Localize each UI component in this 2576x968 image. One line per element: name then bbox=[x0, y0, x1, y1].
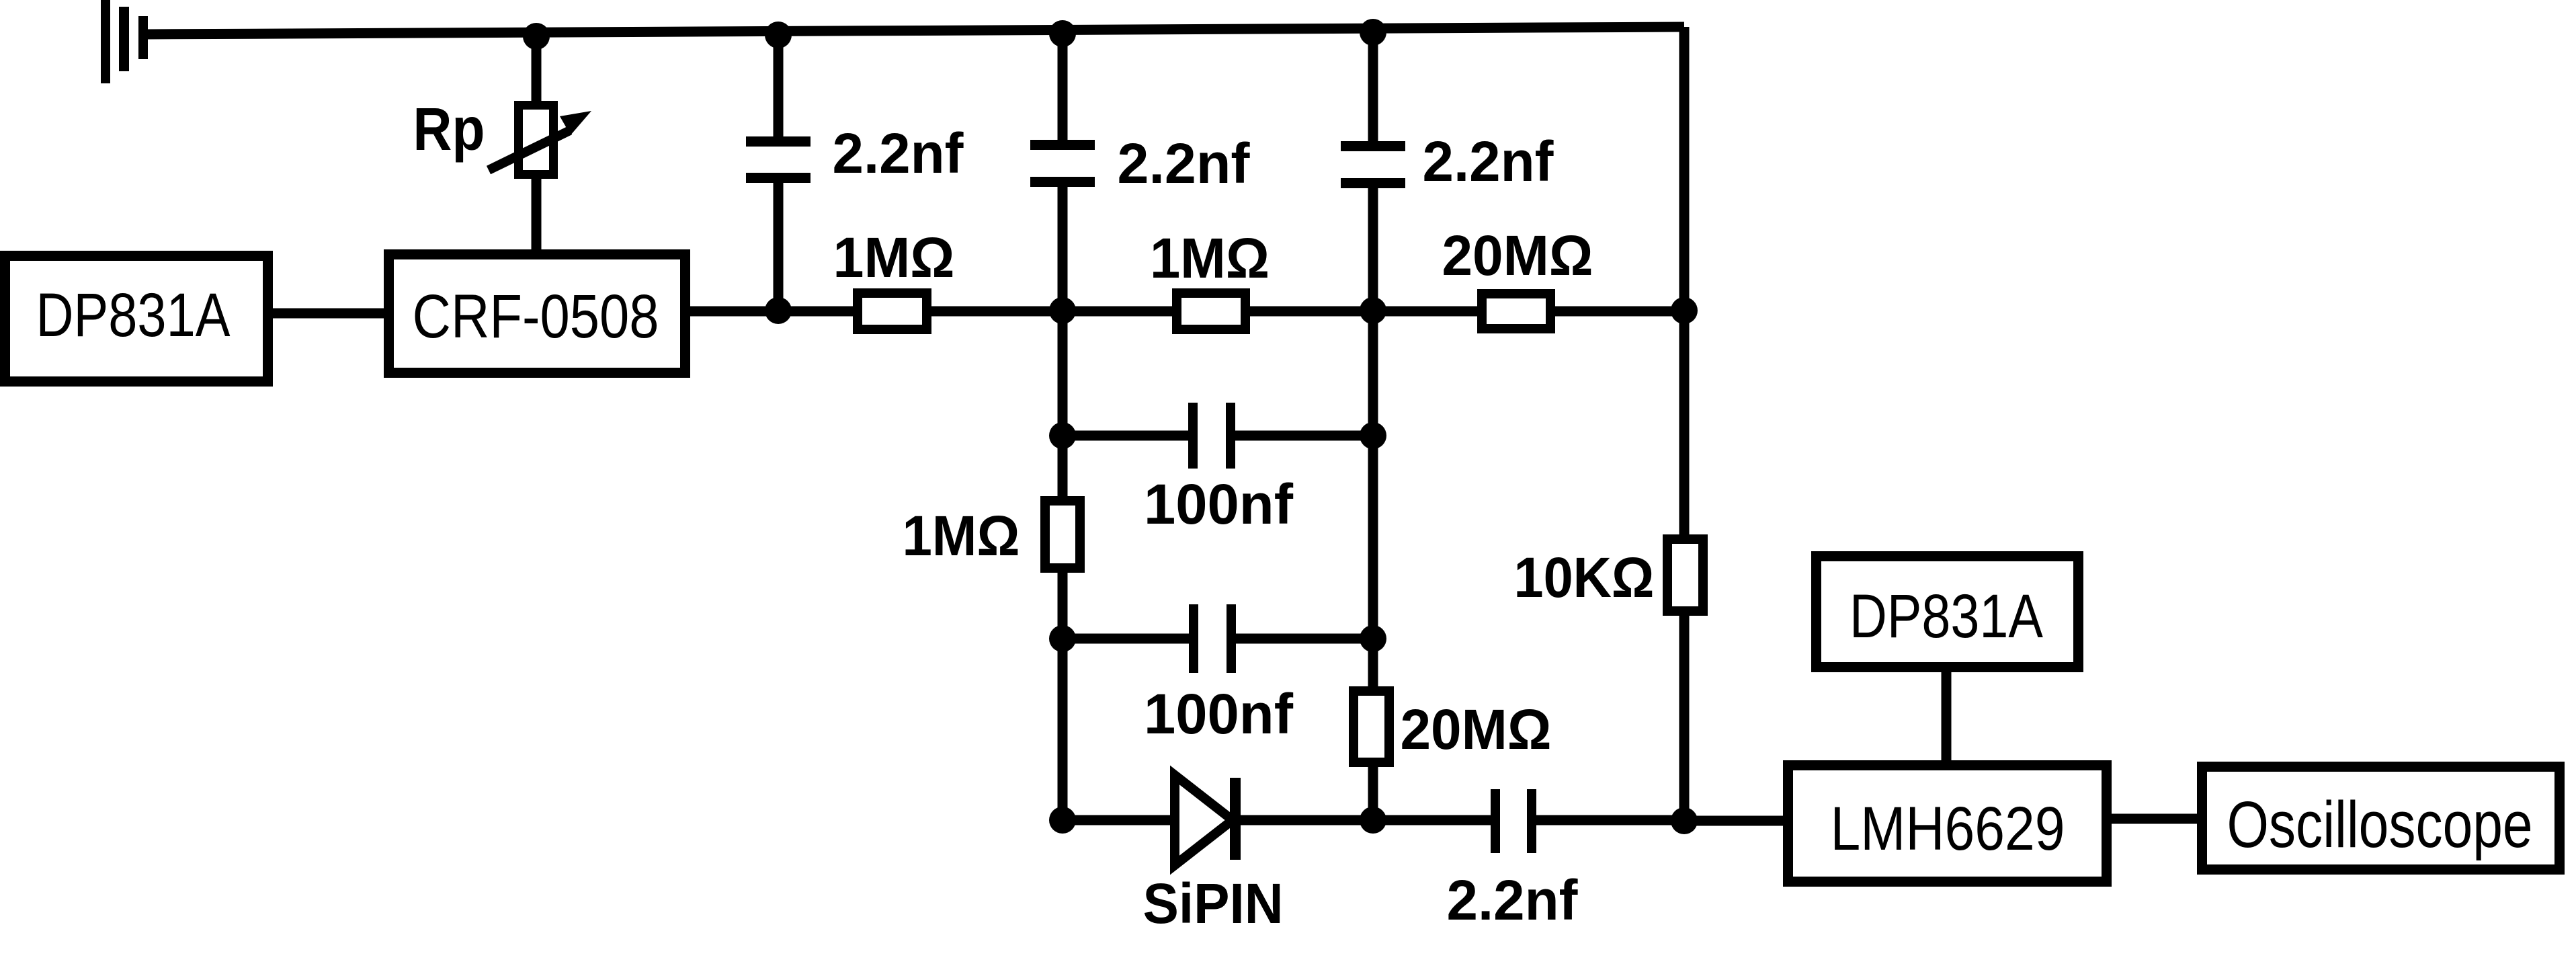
node bias row right rail bbox=[1671, 297, 1698, 324]
node bias row column B bbox=[1049, 297, 1076, 324]
node B1 (100nf row 1 left) bbox=[1049, 422, 1076, 449]
node bias row column C bbox=[1360, 297, 1386, 324]
capacitor C2 top plate bbox=[1030, 140, 1095, 150]
wire node B1 to C4 left plate bbox=[1063, 431, 1190, 441]
wire Rp to CRF-0508 bbox=[532, 177, 542, 254]
resistor R6 10K body bbox=[1667, 539, 1703, 611]
svg-text:100nf: 100nf bbox=[1144, 682, 1294, 745]
block DP831A power supply (left) bbox=[5, 256, 268, 382]
wire C6 right plate to output node bbox=[1534, 815, 1684, 825]
wire top rail to C1 top plate bbox=[774, 30, 784, 138]
capacitor C6 right plate bbox=[1527, 789, 1536, 853]
capacitor C1 bottom plate bbox=[746, 173, 811, 183]
svg-text:Rp: Rp bbox=[413, 96, 485, 163]
wire C1 bottom plate to bias node A bbox=[774, 180, 784, 313]
wire top rail bbox=[143, 27, 1684, 34]
node C1 (100nf row 1 right) bbox=[1360, 422, 1386, 449]
node top-Rp junction bbox=[523, 23, 550, 50]
capacitor C3 bottom plate bbox=[1341, 178, 1405, 188]
node A (C1/R1 bias row) bbox=[765, 297, 792, 324]
capacitor C2 bottom plate bbox=[1030, 177, 1095, 187]
wire column C (C3 bottom plate through nodes to diode cathode row) bbox=[1368, 187, 1378, 821]
wire DP831A supply to LMH6629 bbox=[1942, 671, 1952, 762]
svg-text:2.2nf: 2.2nf bbox=[1423, 130, 1554, 193]
wire node C3 to C6 left plate bbox=[1373, 815, 1493, 825]
svg-text:100nf: 100nf bbox=[1144, 473, 1294, 536]
resistor R4 1M vertical body bbox=[1045, 501, 1080, 568]
svg-text:2.2nf: 2.2nf bbox=[1447, 869, 1579, 932]
node top-C2 junction bbox=[1049, 20, 1076, 47]
wire SiPIN cathode to node C3 bbox=[1235, 815, 1373, 825]
wire top rail to C2 top plate bbox=[1058, 28, 1068, 141]
wire SiPIN anode bbox=[1063, 815, 1177, 825]
resistor R5 20M vertical body bbox=[1354, 691, 1389, 762]
capacitor C1 top plate bbox=[746, 136, 811, 147]
svg-text:LMH6629: LMH6629 bbox=[1831, 795, 2065, 863]
capacitor C4 right plate bbox=[1226, 403, 1235, 469]
wire LMH6629 to Oscilloscope bbox=[2110, 814, 2198, 824]
capacitor C3 top plate bbox=[1341, 141, 1405, 151]
svg-text:SiPIN: SiPIN bbox=[1143, 872, 1284, 935]
wire right vertical (top rail to output node) bbox=[1679, 27, 1690, 821]
svg-text:2.2nf: 2.2nf bbox=[1118, 132, 1251, 195]
svg-text:Oscilloscope: Oscilloscope bbox=[2227, 788, 2533, 861]
wire output node to LMH6629 bbox=[1684, 816, 1784, 826]
block CRF-0508 filter bbox=[389, 255, 685, 373]
node C2 (100nf row 2 right) bbox=[1360, 625, 1386, 652]
svg-text:20MΩ: 20MΩ bbox=[1442, 224, 1593, 287]
block LMH6629 amplifier bbox=[1788, 766, 2107, 882]
capacitor C5 left plate bbox=[1189, 604, 1198, 673]
svg-text:1MΩ: 1MΩ bbox=[833, 226, 955, 289]
node output junction bbox=[1671, 807, 1698, 834]
wire top rail to C3 top plate bbox=[1368, 27, 1378, 143]
capacitor C5 right plate bbox=[1227, 604, 1236, 673]
resistor R1 1M body bbox=[858, 293, 927, 329]
wire DP831A to CRF-0508 bbox=[272, 309, 385, 319]
svg-text:2.2nf: 2.2nf bbox=[833, 122, 964, 185]
node C3 (diode cathode junction) bbox=[1360, 807, 1386, 834]
capacitor C4 left plate bbox=[1188, 403, 1198, 469]
ground symbol bbox=[101, 0, 148, 83]
svg-text:10KΩ: 10KΩ bbox=[1514, 546, 1655, 609]
node B2 (100nf row 2 left) bbox=[1049, 625, 1076, 652]
node top-C1 junction bbox=[765, 22, 792, 48]
diode SiPIN triangle bbox=[1175, 775, 1233, 865]
resistor Rp arrow bbox=[489, 111, 591, 170]
svg-text:DP831A: DP831A bbox=[36, 281, 231, 350]
capacitor C6 left plate bbox=[1491, 789, 1500, 853]
resistor R3 20M body bbox=[1482, 294, 1550, 329]
diode SiPIN cathode bar bbox=[1230, 778, 1241, 860]
svg-text:CRF-0508: CRF-0508 bbox=[413, 282, 659, 351]
wire column B (C2 bottom plate through nodes to SiPIN anode) bbox=[1058, 186, 1068, 821]
node SiPIN anode junction bbox=[1049, 807, 1076, 834]
node top-C3 junction bbox=[1360, 19, 1386, 46]
resistor R2 1M body bbox=[1177, 293, 1245, 329]
wire node B2 to C5 left plate bbox=[1063, 634, 1190, 644]
svg-text:20MΩ: 20MΩ bbox=[1401, 698, 1552, 761]
wire C4 right plate to node C1 bbox=[1234, 431, 1373, 441]
wire C5 right plate to node C2 bbox=[1235, 634, 1373, 644]
wire bias row (CRF-0508 output through R1 R2 R3) bbox=[688, 307, 1686, 317]
svg-text:1MΩ: 1MΩ bbox=[903, 504, 1020, 567]
svg-text:1MΩ: 1MΩ bbox=[1150, 227, 1270, 290]
block Oscilloscope bbox=[2202, 767, 2560, 870]
resistor Rp (variable) body bbox=[519, 106, 554, 175]
wire top rail to Rp bbox=[532, 30, 542, 102]
svg-text:DP831A: DP831A bbox=[1850, 582, 2044, 651]
block DP831A power supply (right) bbox=[1817, 557, 2079, 668]
